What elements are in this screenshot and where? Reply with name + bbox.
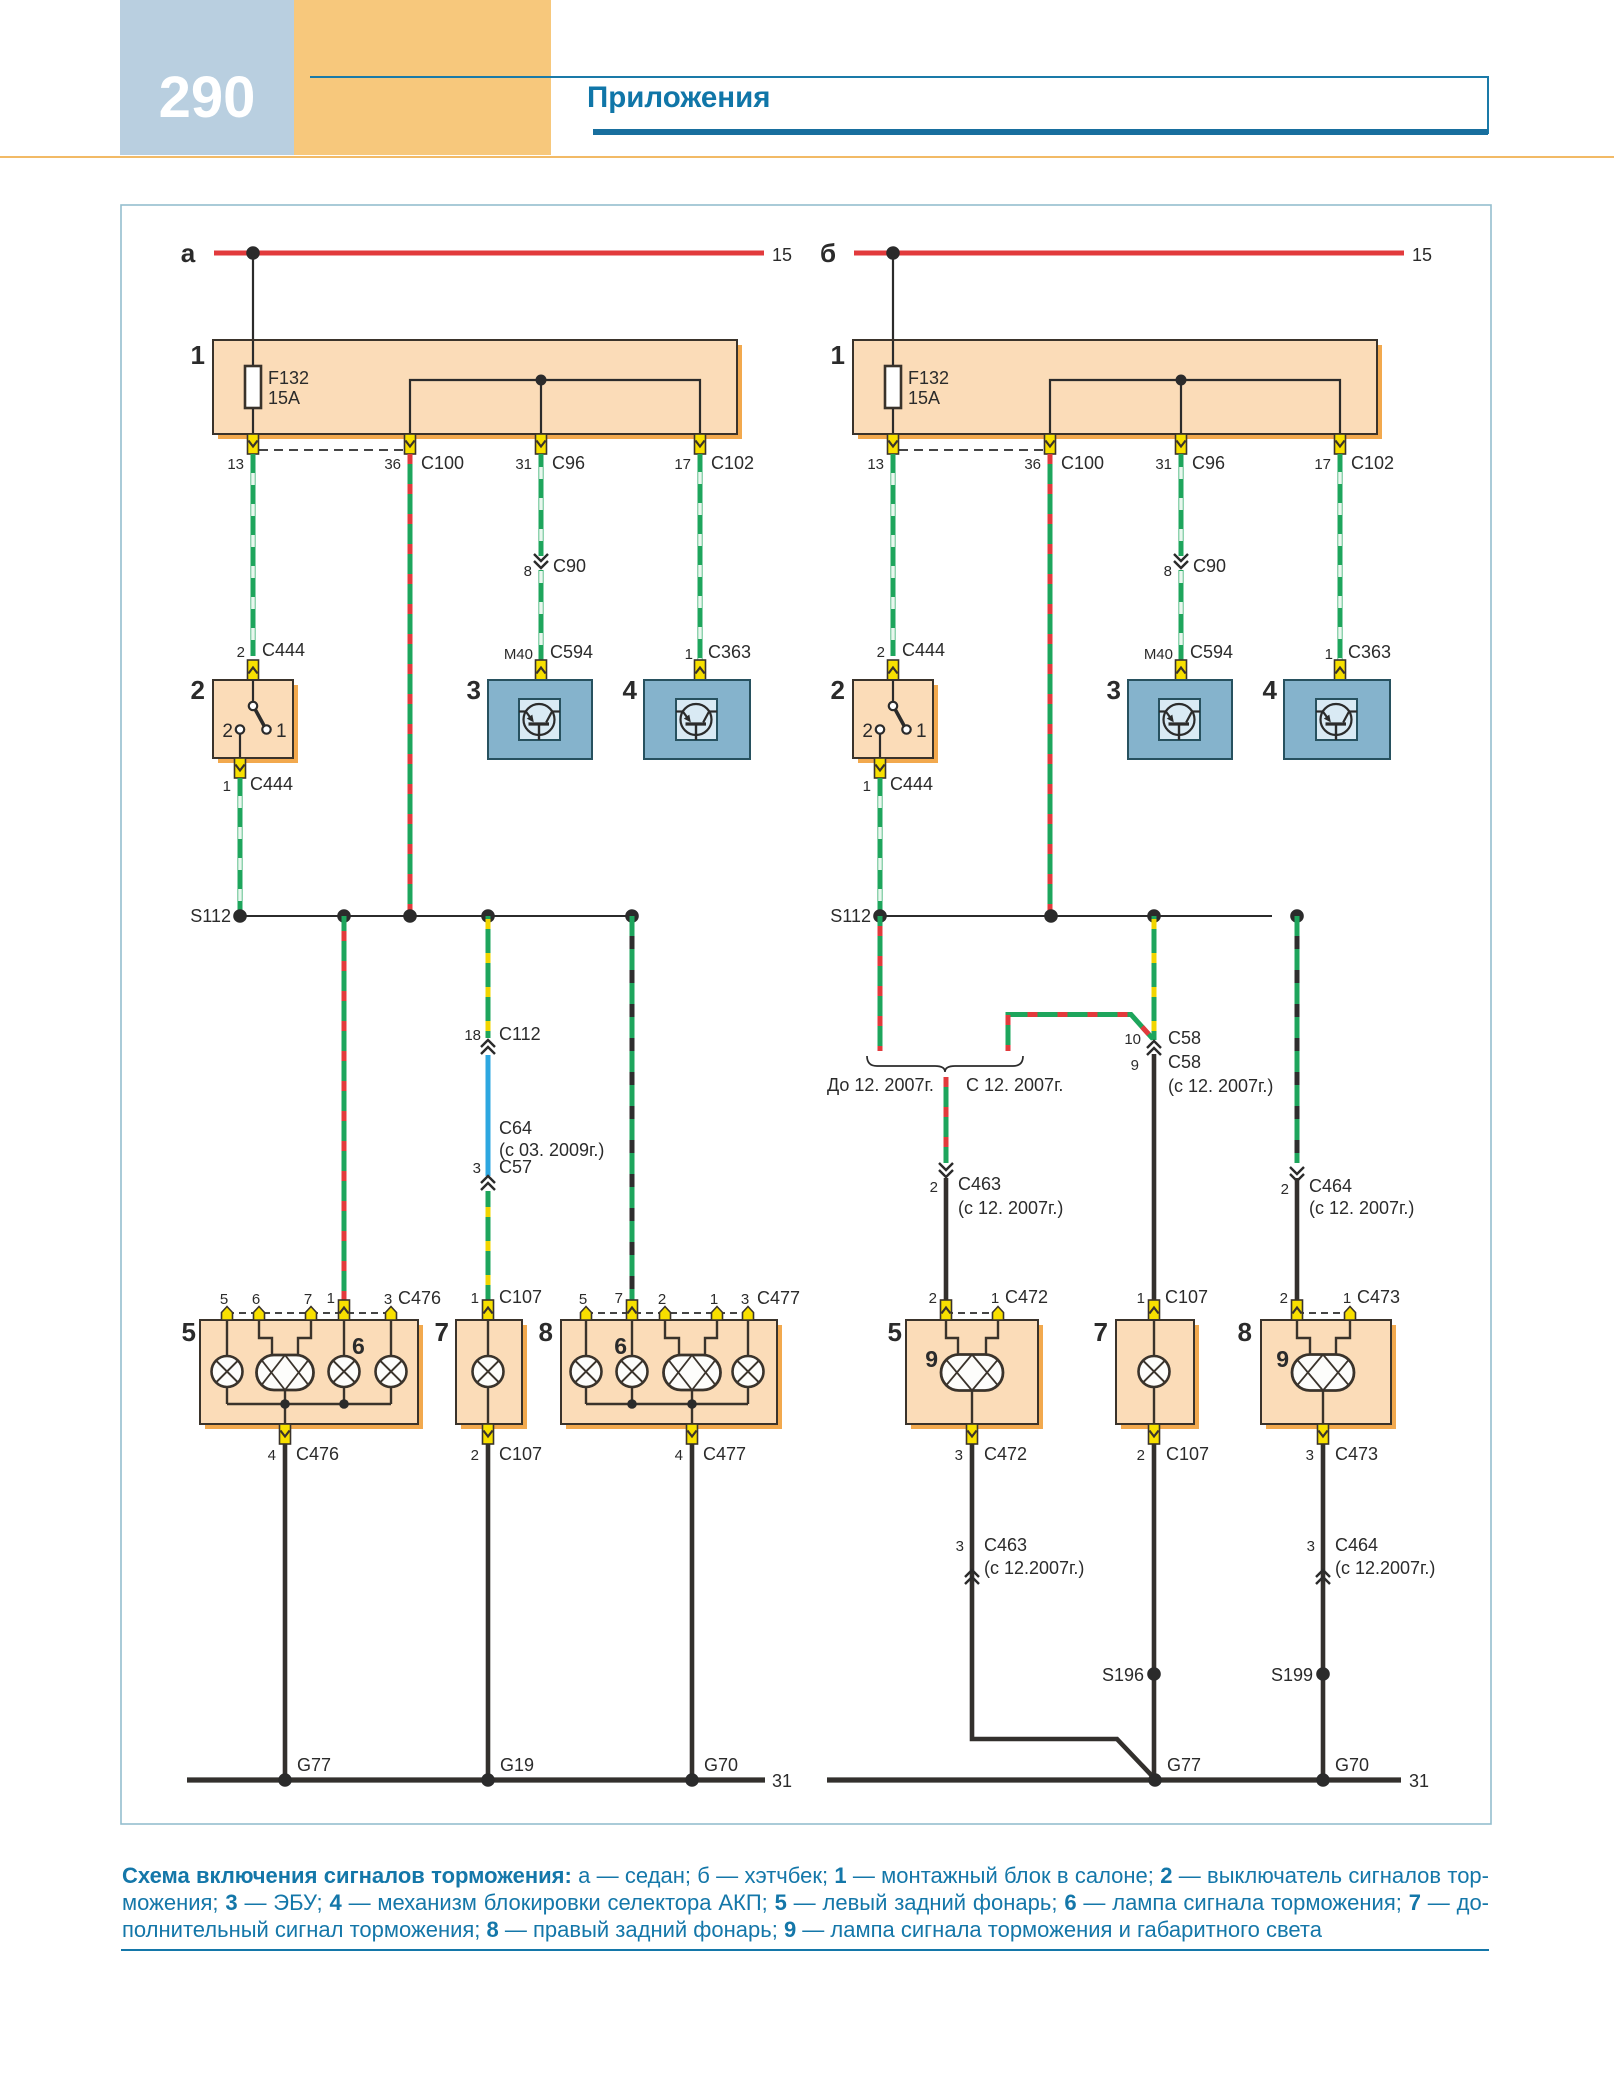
wire box7 to G77 (хэтчбек)	[1152, 1444, 1157, 1780]
splice S196	[1147, 1667, 1161, 1681]
svg-text:M40: M40	[1144, 646, 1173, 663]
svg-text:2: 2	[930, 1179, 938, 1196]
component 1 монтажный блок (седан a)	[213, 340, 742, 439]
connector 2 C444 (хэтчбек б)	[888, 660, 899, 680]
wire C58 pin9 to box7 black	[1152, 1054, 1157, 1300]
svg-text:17: 17	[674, 456, 691, 473]
svg-text:36: 36	[384, 456, 401, 473]
svg-text:10: 10	[1124, 1031, 1141, 1048]
svg-text:1: 1	[471, 1290, 479, 1307]
connector 3 C473	[1318, 1424, 1329, 1444]
svg-text:2: 2	[877, 644, 885, 661]
svg-text:9: 9	[1276, 1346, 1289, 1372]
internal junctions box 5	[280, 1399, 349, 1409]
connector pin 31 C96 (хэтчбек б)	[1176, 434, 1187, 454]
splice bus S112 (хэтчбек б)	[880, 915, 1272, 917]
connector pin 36 C100 (седан a)	[405, 434, 416, 454]
inline connector 8 C90 (хэтчбек б)	[1174, 554, 1188, 568]
svg-text:C476: C476	[296, 1444, 339, 1464]
svg-text:С 12. 2007г.: С 12. 2007г.	[966, 1075, 1063, 1095]
junctions on S112 bus (седан)	[233, 909, 639, 923]
svg-text:2: 2	[1137, 1447, 1145, 1464]
svg-text:1: 1	[916, 721, 927, 742]
svg-text:S196: S196	[1102, 1665, 1144, 1685]
inline connector 8 C90 (седан a)	[534, 554, 548, 568]
lamp brake left	[329, 1356, 360, 1387]
svg-text:S112: S112	[830, 906, 871, 926]
wire pin17 to C363 green/white (хэтчбек б)	[1338, 454, 1343, 660]
component 2 выключатель сигналов торможения (хэтчбек б)	[853, 680, 938, 763]
internal wiring box 8 (хэтчбек)	[1297, 1320, 1350, 1424]
svg-text:3: 3	[467, 675, 481, 705]
lamp turn right a	[733, 1356, 764, 1387]
svg-text:17: 17	[1314, 456, 1331, 473]
svg-text:9: 9	[1131, 1057, 1139, 1074]
svg-text:S199: S199	[1271, 1665, 1313, 1685]
component 8 правый задний фонарь (хэтчбек)	[1261, 1320, 1396, 1429]
figure caption	[122, 1862, 1489, 1943]
svg-text:(с 12.2007г.): (с 12.2007г.)	[1335, 1558, 1435, 1578]
lamp position light left	[212, 1356, 243, 1387]
lamp additional brake light (седан)	[473, 1356, 504, 1387]
inline connector 3 C57	[481, 1176, 495, 1190]
connector M40 C594 (хэтчбек б)	[1176, 660, 1187, 680]
svg-text:C58: C58	[1168, 1052, 1201, 1072]
wire pin31 to C90 green/white (хэтчбек б)	[1179, 454, 1184, 556]
connector 2 C107 (седан)	[483, 1424, 494, 1444]
internal wiring box 8 (седан)	[586, 1320, 748, 1424]
svg-text:C463: C463	[984, 1535, 1027, 1555]
wire pin13 to C444 green/white (хэтчбек б)	[891, 454, 896, 656]
svg-text:2: 2	[1280, 1290, 1288, 1307]
svg-text:C64: C64	[499, 1118, 532, 1138]
wire C58 loop since 12.2007 green/red	[1008, 1015, 1153, 1052]
internal junction (хэтчбек б)	[1176, 375, 1187, 386]
svg-text:C363: C363	[1348, 642, 1391, 662]
wire C464 to box8 black (хэтчбек)	[1295, 1178, 1300, 1300]
alternatives brace	[867, 1056, 1023, 1072]
connector pin 5 C477	[581, 1307, 592, 1321]
component 4 механизм блокировки селектора АКП (седан a)	[644, 680, 750, 759]
wire through fuse (хэтчбек б)	[892, 341, 894, 434]
internal junction (седан a)	[536, 375, 547, 386]
svg-text:5: 5	[888, 1317, 902, 1347]
wire S112 to C464 green/black (хэтчбек)	[1295, 916, 1300, 1163]
svg-text:C594: C594	[1190, 642, 1233, 662]
svg-text:2: 2	[237, 644, 245, 661]
lamp position right a	[571, 1356, 602, 1387]
svg-text:7: 7	[304, 1291, 312, 1308]
svg-text:3: 3	[956, 1538, 964, 1555]
svg-text:C477: C477	[757, 1288, 800, 1308]
page number 290	[120, 64, 294, 131]
inline connector 10 C58	[1147, 1041, 1161, 1055]
internal junctions box 8	[627, 1399, 697, 1409]
internal wiring box 5 (седан)	[227, 1320, 391, 1424]
svg-text:C58: C58	[1168, 1028, 1201, 1048]
svg-text:C107: C107	[499, 1444, 542, 1464]
svg-text:C444: C444	[902, 640, 945, 660]
svg-text:C473: C473	[1335, 1444, 1378, 1464]
svg-text:C463: C463	[958, 1174, 1001, 1194]
connector 1 C444 (хэтчбек б)	[875, 758, 886, 778]
wire pin36 green/red (седан a)	[408, 454, 413, 916]
component 8 правый задний фонарь (седан)	[561, 1320, 782, 1429]
junction on rail 15 (хэтчбек б)	[886, 246, 900, 260]
svg-text:б: б	[820, 238, 836, 268]
svg-text:31: 31	[515, 456, 532, 473]
svg-text:C57: C57	[499, 1157, 532, 1177]
wire pin17 to C363 green/white (седан a)	[698, 454, 703, 660]
svg-text:4: 4	[268, 1447, 276, 1464]
svg-text:8: 8	[1164, 563, 1172, 580]
inline connector 3 C463 lower	[965, 1570, 979, 1584]
connector 2 C107 (хэтчбек)	[1149, 1424, 1160, 1444]
connector pin 2 C472	[941, 1300, 952, 1320]
svg-text:C107: C107	[1165, 1287, 1208, 1307]
component 7 дополнительный сигнал торможения (хэтчбек)	[1116, 1320, 1199, 1429]
wire C90 to C594 green/white (седан a)	[539, 570, 544, 660]
svg-text:5: 5	[182, 1317, 196, 1347]
connector pin 2 C477	[660, 1307, 671, 1321]
splice S199	[1316, 1667, 1330, 1681]
power rail 15 (хэтчбек б)	[854, 251, 1404, 256]
svg-text:1: 1	[685, 646, 693, 663]
lamp 9 сигнала торможения и габаритного света left	[941, 1355, 1003, 1391]
svg-text:13: 13	[867, 456, 884, 473]
caption rule	[121, 1949, 1489, 1951]
lamp 9 сигнала торможения и габаритного света right	[1292, 1355, 1354, 1391]
wire box7 to G19 (седан)	[486, 1444, 491, 1780]
svg-text:5: 5	[220, 1291, 228, 1308]
svg-text:8: 8	[1238, 1317, 1252, 1347]
connector pin 1 C476	[339, 1300, 350, 1320]
svg-text:31: 31	[1409, 1771, 1429, 1791]
wire pin13 to C444 green/white (седан a)	[251, 454, 256, 656]
ground G19 (седан)	[481, 1773, 495, 1787]
svg-text:9: 9	[925, 1346, 938, 1372]
lamp 6 сигнала торможения left	[257, 1355, 314, 1390]
svg-text:C472: C472	[984, 1444, 1027, 1464]
connector 2 C444 (седан a)	[248, 660, 259, 680]
svg-text:4: 4	[1263, 675, 1278, 705]
page number panel	[120, 0, 294, 155]
wire C444 to S112 green/white (седан a)	[238, 778, 243, 916]
svg-text:(с 12. 2007г.): (с 12. 2007г.)	[1168, 1076, 1273, 1096]
wire pin31 to C90 green/white (седан a)	[539, 454, 544, 556]
ground bus 31 (хэтчбек)	[827, 1777, 1401, 1782]
svg-text:C473: C473	[1357, 1287, 1400, 1307]
ground bus 31 (седан)	[187, 1777, 765, 1782]
svg-text:31: 31	[772, 1771, 792, 1791]
svg-text:C102: C102	[711, 453, 754, 473]
svg-text:C444: C444	[250, 774, 293, 794]
svg-text:C90: C90	[553, 556, 586, 576]
wire box8 to G70 (седан)	[690, 1444, 695, 1780]
svg-text:1: 1	[1343, 1290, 1351, 1307]
transistor pictogram U4 (седан a)	[676, 699, 717, 740]
svg-text:3: 3	[741, 1291, 749, 1308]
svg-text:15A: 15A	[268, 388, 300, 408]
svg-text:2: 2	[658, 1291, 666, 1308]
connector pin 13 (хэтчбек б)	[888, 434, 899, 454]
connector 4 C476	[280, 1424, 291, 1444]
svg-text:1: 1	[1137, 1290, 1145, 1307]
component 1 монтажный блок (хэтчбек б)	[853, 340, 1382, 439]
connector pin 5 C476	[222, 1307, 233, 1321]
svg-text:1: 1	[831, 340, 845, 370]
svg-text:7: 7	[435, 1317, 449, 1347]
internal wiring box 5 (хэтчбек)	[946, 1320, 998, 1424]
svg-text:2: 2	[191, 675, 205, 705]
svg-text:G70: G70	[704, 1755, 738, 1775]
svg-text:C472: C472	[1005, 1287, 1048, 1307]
svg-text:а: а	[181, 238, 196, 268]
header title Приложения	[587, 81, 770, 115]
wire rail to fuse box (седан a)	[252, 253, 254, 341]
wire C57 to box7 green/yellow (седан)	[486, 1191, 491, 1300]
svg-text:C112: C112	[499, 1024, 541, 1044]
wire rail to fuse box (хэтчбек б)	[892, 253, 894, 341]
svg-text:6: 6	[352, 1333, 365, 1359]
switch symbol (хэтчбек б)	[862, 680, 926, 758]
wire pin36 green/red (хэтчбек б)	[1048, 454, 1053, 916]
connector 1 C444 (седан a)	[235, 758, 246, 778]
svg-text:C476: C476	[398, 1288, 441, 1308]
svg-text:2: 2	[862, 721, 873, 742]
svg-text:15A: 15A	[908, 388, 940, 408]
connector pin 36 C100 (хэтчбек б)	[1045, 434, 1056, 454]
svg-text:2: 2	[831, 675, 845, 705]
connector pin 3 C476	[386, 1307, 397, 1321]
svg-text:C444: C444	[890, 774, 933, 794]
internal wiring box 7 (хэтчбек)	[1153, 1320, 1155, 1424]
svg-text:M40: M40	[504, 646, 533, 663]
connector pin 7 C477	[627, 1300, 638, 1320]
connector M40 C594 (седан a)	[536, 660, 547, 680]
svg-text:1: 1	[710, 1291, 718, 1308]
diagram frame	[121, 205, 1491, 1824]
lamp 6 сигнала торможения right	[664, 1355, 721, 1390]
header rule thick	[593, 129, 1488, 135]
ground G77 (хэтчбек)	[1148, 1773, 1162, 1787]
wire C444 to S112 green/white (хэтчбек б)	[878, 778, 883, 916]
wire S112 to C58 green/yellow	[1152, 916, 1157, 1040]
header orange rule	[0, 156, 1614, 158]
svg-text:(с 12.2007г.): (с 12.2007г.)	[984, 1558, 1084, 1578]
svg-text:36: 36	[1024, 456, 1041, 473]
ground G77 (седан)	[278, 1773, 292, 1787]
ground G70 (хэтчбек)	[1316, 1773, 1330, 1787]
svg-text:1: 1	[223, 778, 231, 795]
wire box5 to G77 (седан)	[283, 1444, 288, 1780]
connector pin 1 C472	[993, 1307, 1004, 1321]
svg-text:31: 31	[1155, 456, 1172, 473]
connector pin 17 C102 (хэтчбек б)	[1335, 434, 1346, 454]
svg-text:3: 3	[1306, 1447, 1314, 1464]
svg-text:5: 5	[579, 1291, 587, 1308]
transistor pictogram U3 (седан a)	[519, 699, 560, 740]
svg-text:15: 15	[1412, 245, 1432, 265]
svg-text:8: 8	[539, 1317, 553, 1347]
svg-text:13: 13	[227, 456, 244, 473]
wire C463 to box5 black (хэтчбек)	[944, 1178, 949, 1300]
wire S112 to lamp pin1 green/red (седан)	[342, 916, 347, 1300]
svg-text:2: 2	[1281, 1181, 1289, 1198]
svg-text:C464: C464	[1335, 1535, 1378, 1555]
svg-text:C96: C96	[552, 453, 585, 473]
header orange panel	[294, 0, 551, 155]
svg-text:(с 12. 2007г.): (с 12. 2007г.)	[1309, 1198, 1414, 1218]
svg-text:4: 4	[623, 675, 638, 705]
svg-text:До 12. 2007г.: До 12. 2007г.	[827, 1075, 934, 1095]
connector 1 C363 (хэтчбек б)	[1335, 660, 1346, 680]
component 5 левый задний фонарь (седан)	[200, 1320, 423, 1429]
svg-text:F132: F132	[908, 368, 949, 388]
connector pin 13 (седан a)	[248, 434, 259, 454]
connector 1 C363 (седан a)	[695, 660, 706, 680]
connector pin 17 C102 (седан a)	[695, 434, 706, 454]
wire C112 to C57 blue C64	[486, 1055, 491, 1176]
connector 1 C107 (седан)	[483, 1300, 494, 1320]
inline connector 2 C463	[939, 1163, 953, 1177]
connector pin 6 C476	[254, 1307, 265, 1321]
svg-text:1: 1	[1325, 646, 1333, 663]
svg-text:1: 1	[863, 778, 871, 795]
dashed link across pins of C477	[586, 1312, 748, 1314]
svg-text:(с 12. 2007г.): (с 12. 2007г.)	[958, 1198, 1063, 1218]
connector 4 C477	[687, 1424, 698, 1444]
svg-text:C100: C100	[1061, 453, 1104, 473]
svg-text:4: 4	[675, 1447, 683, 1464]
svg-text:7: 7	[615, 1290, 623, 1307]
svg-text:2: 2	[471, 1447, 479, 1464]
wire box8 to G70 (хэтчбек)	[1321, 1444, 1326, 1780]
svg-text:C102: C102	[1351, 453, 1394, 473]
svg-text:C444: C444	[262, 640, 305, 660]
component 3 ЭБУ (хэтчбек б)	[1128, 680, 1232, 759]
fuse F132 15A (седан a)	[245, 366, 309, 408]
dashed link pin13-pin36 (седан a)	[259, 449, 404, 451]
wire S112 to C112 green/yellow (седан)	[486, 916, 491, 1038]
svg-text:8: 8	[524, 563, 532, 580]
lamp brake right a	[617, 1356, 648, 1387]
inline connector 3 C464 lower	[1316, 1570, 1330, 1584]
svg-text:C90: C90	[1193, 556, 1226, 576]
junction on rail 15 (седан a)	[246, 246, 260, 260]
connector pin 31 C96 (седан a)	[536, 434, 547, 454]
svg-text:1: 1	[327, 1290, 335, 1307]
svg-text:3: 3	[1307, 1538, 1315, 1555]
svg-text:2: 2	[929, 1290, 937, 1307]
inline connector 18 C112	[481, 1040, 495, 1054]
internal bus of block 1 (хэтчбек б)	[1050, 380, 1340, 434]
svg-text:C100: C100	[421, 453, 464, 473]
svg-text:C96: C96	[1192, 453, 1225, 473]
transistor pictogram U3 (хэтчбек б)	[1159, 699, 1200, 740]
svg-text:C363: C363	[708, 642, 751, 662]
wire through fuse (седан a)	[252, 341, 254, 434]
header rule right edge	[1487, 76, 1489, 134]
svg-text:6: 6	[252, 1291, 260, 1308]
svg-text:15: 15	[772, 245, 792, 265]
svg-text:G77: G77	[297, 1755, 331, 1775]
svg-text:C477: C477	[703, 1444, 746, 1464]
svg-text:2: 2	[222, 721, 233, 742]
svg-text:1: 1	[191, 340, 205, 370]
header rule thin	[310, 76, 1488, 78]
svg-text:C107: C107	[1166, 1444, 1209, 1464]
component 4 механизм блокировки селектора АКП (хэтчбек б)	[1284, 680, 1390, 759]
wire C90 to C594 green/white (хэтчбек б)	[1179, 570, 1184, 660]
svg-text:C594: C594	[550, 642, 593, 662]
connector 3 C472	[967, 1424, 978, 1444]
junctions on S112 bus (хэтчбек)	[873, 909, 1304, 923]
svg-text:1: 1	[991, 1290, 999, 1307]
dashed link across pins of C476	[227, 1312, 391, 1314]
wire S112 to box8 green/black (седан)	[630, 916, 635, 1300]
fuse F132 15A (хэтчбек б)	[885, 366, 949, 408]
connector pin 1 C473	[1345, 1307, 1356, 1321]
ground G70 (седан)	[685, 1773, 699, 1787]
wire box5 to G77 (хэтчбек)	[972, 1444, 1155, 1779]
splice bus S112 (седан a)	[240, 915, 632, 917]
connector pin 3 C477	[743, 1307, 754, 1321]
switch symbol (седан a)	[222, 680, 286, 758]
connector pin 1 C477	[712, 1307, 723, 1321]
component 2 выключатель сигналов торможения (седан a)	[213, 680, 298, 763]
dashed link pins C472	[946, 1312, 998, 1314]
connector 1 C107 (хэтчбек)	[1149, 1300, 1160, 1320]
svg-text:G70: G70	[1335, 1755, 1369, 1775]
dashed link pins C473	[1297, 1312, 1350, 1314]
svg-text:S112: S112	[190, 906, 231, 926]
svg-text:18: 18	[464, 1027, 481, 1044]
internal wiring box 7 (седан)	[487, 1320, 489, 1424]
connector pin 2 C473	[1292, 1300, 1303, 1320]
lamp turn left	[376, 1356, 407, 1387]
svg-text:6: 6	[614, 1333, 627, 1359]
component 7 дополнительный сигнал торможения (седан)	[456, 1320, 527, 1429]
svg-text:3: 3	[384, 1291, 392, 1308]
wire S112 stub before 12.2007 green/red	[878, 916, 883, 1051]
svg-text:3: 3	[1107, 675, 1121, 705]
lamp additional brake light (хэтчбек)	[1139, 1356, 1170, 1387]
svg-text:G77: G77	[1167, 1755, 1201, 1775]
svg-text:C107: C107	[499, 1287, 542, 1307]
inline connector 2 C464	[1290, 1167, 1304, 1181]
dashed link pin13-pin36 (хэтчбек б)	[899, 449, 1044, 451]
svg-text:7: 7	[1094, 1317, 1108, 1347]
svg-text:G19: G19	[500, 1755, 534, 1775]
internal bus of block 1 (седан a)	[410, 380, 700, 434]
component 5 левый задний фонарь (хэтчбек)	[906, 1320, 1043, 1429]
power rail 15 (седан a)	[214, 251, 764, 256]
svg-text:C464: C464	[1309, 1176, 1352, 1196]
svg-text:3: 3	[955, 1447, 963, 1464]
svg-text:1: 1	[276, 721, 287, 742]
svg-text:3: 3	[473, 1160, 481, 1177]
wire to C463 green/red	[944, 1077, 949, 1163]
connector pin 7 C476	[306, 1307, 317, 1321]
transistor pictogram U4 (хэтчбек б)	[1316, 699, 1357, 740]
svg-text:F132: F132	[268, 368, 309, 388]
component 3 ЭБУ (седан a)	[488, 680, 592, 759]
